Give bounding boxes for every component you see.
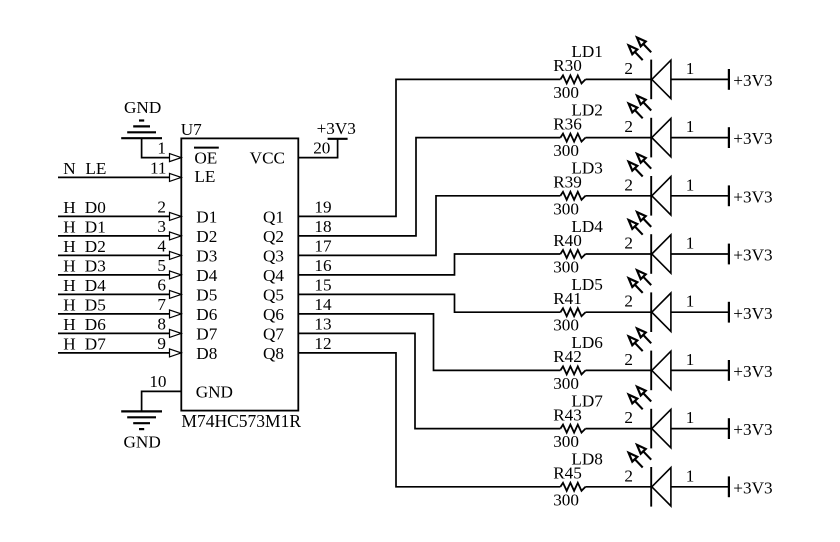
- wire R36 to LED LD2 pin 2: [586, 137, 652, 139]
- power terminal +3V3 (row 3): [729, 185, 773, 206]
- svg-text:Q8: Q8: [263, 344, 284, 363]
- wire LED LD6 pin 1 to +3V3: [671, 369, 729, 371]
- svg-text:300: 300: [553, 490, 579, 509]
- svg-text:+3V3: +3V3: [733, 71, 772, 90]
- svg-text:13: 13: [314, 314, 331, 333]
- net label H_D3: [63, 256, 106, 275]
- net label H_D4: [63, 276, 106, 295]
- svg-text:+3V3: +3V3: [733, 304, 772, 323]
- wire LED LD1 pin 1 to +3V3: [671, 78, 729, 80]
- wire LED LD2 pin 1 to +3V3: [671, 137, 729, 139]
- svg-text:1: 1: [686, 59, 695, 78]
- svg-text:VCC: VCC: [250, 149, 285, 168]
- svg-text:1: 1: [686, 117, 695, 136]
- svg-text:2: 2: [157, 197, 166, 216]
- net label H_D2: [63, 237, 106, 256]
- svg-text:Q7: Q7: [263, 324, 284, 343]
- wire input H_D1 to pin 3 (D2): [58, 232, 181, 240]
- svg-text:Q6: Q6: [263, 305, 284, 324]
- svg-text:Q5: Q5: [263, 285, 284, 304]
- svg-text:D4: D4: [196, 266, 217, 285]
- net label H_D0: [63, 198, 106, 217]
- ground symbol (bottom left): [121, 411, 162, 451]
- power terminal +3V3 (row 4): [729, 244, 773, 265]
- svg-text:D1: D1: [196, 207, 217, 226]
- wire input H_D6 to pin 8 (D7): [58, 329, 181, 337]
- wire LED LD8 pin 1 to +3V3: [671, 486, 729, 488]
- svg-text:H: H: [63, 198, 75, 217]
- svg-text:1: 1: [686, 350, 695, 369]
- svg-text:D3: D3: [85, 256, 106, 275]
- svg-text:8: 8: [157, 314, 166, 333]
- LED LD5: [571, 270, 694, 332]
- svg-text:H: H: [63, 217, 75, 236]
- resistor R36 300: [553, 114, 585, 160]
- net label N_LE: [63, 159, 106, 178]
- resistor R42 300: [553, 347, 585, 393]
- power terminal +3V3 (row 2): [729, 127, 773, 148]
- svg-text:1: 1: [157, 139, 166, 158]
- svg-text:U7: U7: [181, 120, 202, 139]
- svg-text:D7: D7: [85, 334, 106, 353]
- LED LD7: [571, 387, 694, 449]
- svg-text:300: 300: [553, 199, 579, 218]
- wire R39 to LED LD3 pin 2: [586, 195, 652, 197]
- svg-text:LD5: LD5: [571, 275, 603, 294]
- wire Q8 (pin 12) to resistor R45: [298, 353, 560, 487]
- power terminal +3V3 (pin 20): [317, 119, 356, 139]
- svg-text:LD6: LD6: [571, 333, 603, 352]
- svg-text:300: 300: [553, 83, 579, 102]
- svg-text:3: 3: [157, 217, 166, 236]
- svg-text:2: 2: [624, 234, 633, 253]
- wire Q4 (pin 16) to resistor R40: [298, 254, 560, 275]
- LED LD6: [571, 329, 694, 391]
- wire R45 to LED LD8 pin 2: [586, 486, 652, 488]
- svg-text:300: 300: [553, 432, 579, 451]
- svg-text:2: 2: [624, 466, 633, 485]
- wire ground to pin 1 (OE): [142, 138, 182, 161]
- wire LED LD7 pin 1 to +3V3: [671, 428, 729, 430]
- svg-text:LD7: LD7: [571, 391, 603, 410]
- svg-text:+3V3: +3V3: [317, 119, 356, 138]
- wire R42 to LED LD6 pin 2: [586, 369, 652, 371]
- wire Q7 (pin 13) to resistor R43: [298, 333, 560, 428]
- svg-text:2: 2: [624, 117, 633, 136]
- svg-text:11: 11: [150, 158, 167, 177]
- wire input H_D4 to pin 6 (D5): [58, 290, 181, 298]
- svg-text:12: 12: [314, 334, 331, 353]
- wire input H_D0 to pin 2 (D1): [58, 212, 181, 220]
- wire input N_LE to pin 11 (LE): [58, 173, 181, 181]
- svg-text:LD3: LD3: [571, 159, 603, 178]
- wire input H_D5 to pin 7 (D6): [58, 310, 181, 318]
- svg-text:1: 1: [686, 466, 695, 485]
- resistor R30 300: [553, 56, 585, 102]
- svg-text:D1: D1: [85, 217, 106, 236]
- svg-text:D6: D6: [85, 315, 106, 334]
- svg-text:Q4: Q4: [263, 266, 284, 285]
- svg-text:Q3: Q3: [263, 246, 284, 265]
- svg-text:300: 300: [553, 141, 579, 160]
- svg-text:1: 1: [686, 408, 695, 427]
- svg-text:1: 1: [686, 292, 695, 311]
- svg-text:300: 300: [553, 258, 579, 277]
- svg-text:+3V3: +3V3: [733, 246, 772, 265]
- svg-text:2: 2: [624, 292, 633, 311]
- power terminal +3V3 (row 6): [729, 360, 773, 381]
- LED LD2: [571, 96, 694, 158]
- wire Q3 (pin 17) to resistor R39: [298, 196, 560, 256]
- svg-text:5: 5: [157, 256, 166, 275]
- net label H_D1: [63, 217, 106, 236]
- net label H_D7: [63, 334, 106, 353]
- svg-text:15: 15: [314, 275, 331, 294]
- svg-text:20: 20: [313, 139, 330, 158]
- svg-text:GND: GND: [196, 383, 233, 402]
- svg-text:6: 6: [157, 275, 166, 294]
- svg-text:+3V3: +3V3: [733, 129, 772, 148]
- svg-text:18: 18: [314, 217, 331, 236]
- wire R40 to LED LD4 pin 2: [586, 253, 652, 255]
- svg-text:9: 9: [157, 334, 166, 353]
- svg-text:D0: D0: [85, 198, 106, 217]
- svg-text:H: H: [63, 256, 75, 275]
- svg-text:300: 300: [553, 374, 579, 393]
- svg-text:D7: D7: [196, 324, 217, 343]
- svg-text:300: 300: [553, 316, 579, 335]
- wire LED LD3 pin 1 to +3V3: [671, 195, 729, 197]
- svg-text:D6: D6: [196, 305, 217, 324]
- svg-text:D5: D5: [196, 285, 217, 304]
- LED LD4: [571, 212, 694, 274]
- wire pin 10 (GND) to ground: [142, 391, 182, 411]
- svg-text:+3V3: +3V3: [733, 420, 772, 439]
- svg-text:4: 4: [157, 236, 166, 255]
- svg-text:Q1: Q1: [263, 207, 284, 226]
- svg-text:+3V3: +3V3: [733, 478, 772, 497]
- svg-text:2: 2: [624, 175, 633, 194]
- svg-text:H: H: [63, 295, 75, 314]
- svg-text:LD1: LD1: [571, 42, 603, 61]
- resistor R39 300: [553, 173, 585, 219]
- wire Q2 (pin 18) to resistor R36: [298, 138, 560, 236]
- svg-text:LD2: LD2: [571, 100, 603, 119]
- resistor R40 300: [553, 231, 585, 277]
- svg-text:Q2: Q2: [263, 227, 284, 246]
- power terminal +3V3 (row 1): [729, 69, 773, 90]
- svg-text:19: 19: [314, 197, 331, 216]
- svg-text:GND: GND: [124, 98, 161, 117]
- wire Q6 (pin 14) to resistor R42: [298, 314, 560, 371]
- IC U7 body: [181, 138, 298, 410]
- net label H_D6: [63, 315, 106, 334]
- resistor R43 300: [553, 405, 585, 451]
- wire pin 20 (VCC) to +3V3: [298, 139, 337, 158]
- LED LD1: [571, 38, 694, 100]
- wire Q1 (pin 19) to resistor R30: [298, 79, 560, 216]
- svg-text:2: 2: [624, 408, 633, 427]
- svg-text:D3: D3: [196, 246, 217, 265]
- svg-text:1: 1: [686, 175, 695, 194]
- svg-text:2: 2: [624, 350, 633, 369]
- wire Q5 (pin 15) to resistor R41: [298, 294, 560, 312]
- wire input H_D2 to pin 4 (D3): [58, 251, 181, 259]
- power terminal +3V3 (row 5): [729, 302, 773, 323]
- svg-text:D4: D4: [85, 276, 106, 295]
- svg-text:OE: OE: [194, 148, 217, 167]
- svg-text:LE: LE: [85, 159, 106, 178]
- pin 1 label OE (with overline): [194, 148, 219, 168]
- resistor R45 300: [553, 464, 585, 510]
- svg-text:D2: D2: [85, 237, 106, 256]
- svg-text:D8: D8: [196, 344, 217, 363]
- LED LD8: [571, 445, 694, 507]
- wire R30 to LED LD1 pin 2: [586, 78, 652, 80]
- svg-text:GND: GND: [124, 433, 161, 452]
- power terminal +3V3 (row 7): [729, 418, 773, 439]
- svg-text:H: H: [63, 334, 75, 353]
- net label H_D5: [63, 295, 106, 314]
- svg-text:H: H: [63, 237, 75, 256]
- svg-text:D2: D2: [196, 227, 217, 246]
- svg-text:+3V3: +3V3: [733, 362, 772, 381]
- svg-text:LD8: LD8: [571, 450, 603, 469]
- svg-text:1: 1: [686, 234, 695, 253]
- svg-text:H: H: [63, 315, 75, 334]
- svg-text:14: 14: [314, 295, 332, 314]
- svg-text:2: 2: [624, 59, 633, 78]
- LED LD3: [571, 154, 694, 216]
- svg-text:LD4: LD4: [571, 217, 603, 236]
- svg-text:10: 10: [149, 372, 166, 391]
- wire input H_D7 to pin 9 (D8): [58, 349, 181, 357]
- svg-text:7: 7: [157, 295, 166, 314]
- svg-text:16: 16: [314, 256, 332, 275]
- svg-text:H: H: [63, 276, 75, 295]
- svg-text:N: N: [63, 159, 76, 178]
- ground symbol (top left, pointing up): [121, 98, 162, 138]
- wire LED LD4 pin 1 to +3V3: [671, 253, 729, 255]
- resistor R41 300: [553, 289, 585, 335]
- wire R43 to LED LD7 pin 2: [586, 428, 652, 430]
- wire R41 to LED LD5 pin 2: [586, 311, 652, 313]
- svg-text:17: 17: [314, 236, 332, 255]
- wire LED LD5 pin 1 to +3V3: [671, 311, 729, 313]
- power terminal +3V3 (row 8): [729, 476, 773, 497]
- svg-text:D5: D5: [85, 295, 106, 314]
- wire input H_D3 to pin 5 (D4): [58, 271, 181, 279]
- svg-text:+3V3: +3V3: [733, 187, 772, 206]
- svg-text:LE: LE: [194, 167, 215, 186]
- svg-text:M74HC573M1R: M74HC573M1R: [181, 411, 301, 431]
